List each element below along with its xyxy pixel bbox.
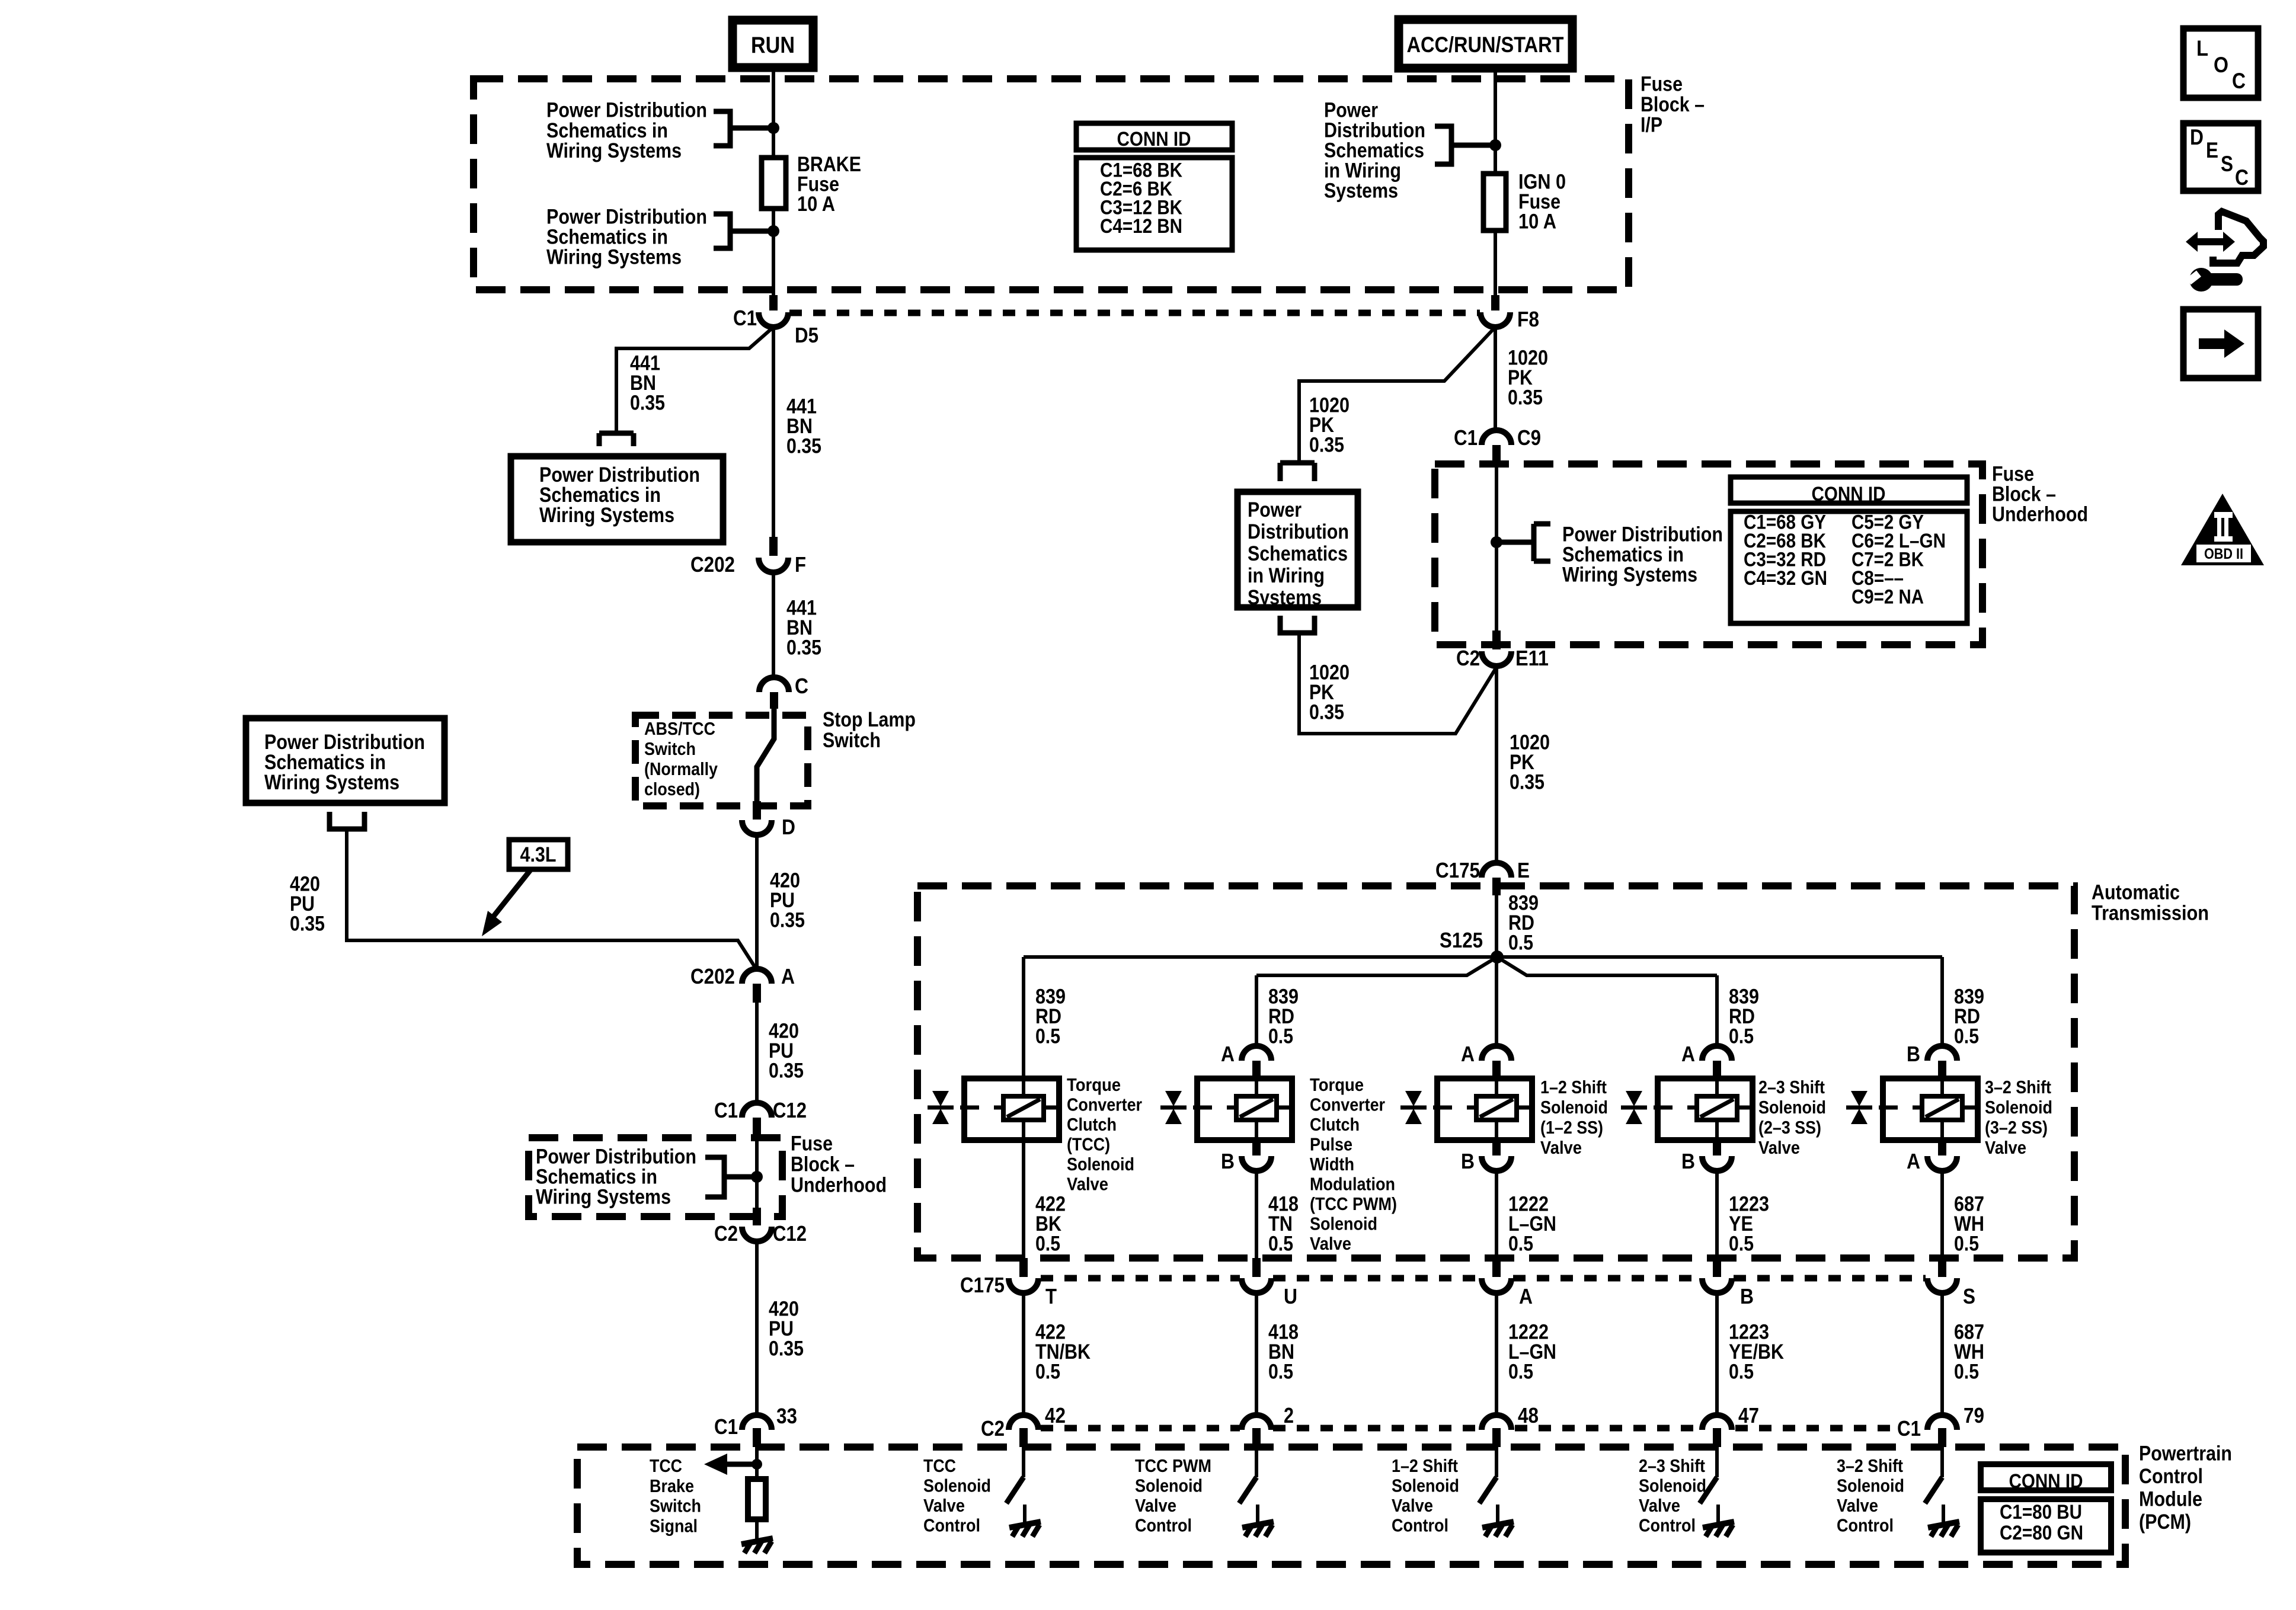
svg-text:Fuse: Fuse	[1641, 73, 1683, 96]
svg-text:Valve: Valve	[1639, 1495, 1680, 1516]
4.3L tag box	[509, 840, 568, 869]
hydraulic dashes col4	[1654, 1106, 1753, 1110]
svg-text:ACC/RUN/START: ACC/RUN/START	[1407, 33, 1564, 57]
svg-text:Block –: Block –	[791, 1153, 855, 1176]
svg-text:TCC: TCC	[650, 1455, 682, 1476]
svg-text:C12: C12	[773, 1098, 807, 1122]
svg-text:0.35: 0.35	[769, 1060, 804, 1083]
connector C1-C12: blade	[753, 1118, 761, 1135]
icon forward arrow	[2183, 309, 2258, 378]
node junction dot	[752, 1459, 762, 1470]
svg-text:Solenoid: Solenoid	[1540, 1097, 1608, 1118]
fuse BRAKE 10A	[762, 158, 786, 209]
svg-text:C2=80 GN: C2=80 GN	[2000, 1522, 2083, 1544]
svg-text:B: B	[1907, 1042, 1920, 1066]
col5 drop wire	[1940, 957, 1944, 1048]
svg-text:O: O	[2214, 53, 2228, 77]
label 1-2 Shift Solenoid (1-2 SS) Valve	[1540, 1077, 1608, 1158]
svg-text:42: 42	[1045, 1403, 1066, 1427]
relay coil col2	[1236, 1096, 1277, 1120]
svg-text:C202: C202	[690, 552, 735, 577]
connector C1-D5: arc	[759, 312, 788, 327]
svg-text:Valve: Valve	[1540, 1137, 1582, 1158]
ACC/RUN/START box	[1399, 20, 1572, 68]
node junction dot	[768, 122, 779, 134]
svg-text:Distribution: Distribution	[1248, 520, 1349, 543]
driver switch and ground col3	[1495, 1447, 1498, 1477]
bracket into reference box	[1280, 463, 1315, 481]
svg-text:C: C	[2235, 165, 2249, 190]
svg-text:F: F	[795, 552, 806, 577]
svg-text:0.35: 0.35	[1309, 701, 1344, 724]
relay coil col5	[1922, 1096, 1962, 1120]
wire label 418 TN 0.5	[1268, 1193, 1299, 1256]
svg-text:Wiring Systems: Wiring Systems	[539, 504, 674, 527]
ground	[741, 1538, 773, 1553]
connector B (col2 bottom): blade	[1252, 1140, 1261, 1156]
svg-text:(2–3 SS): (2–3 SS)	[1758, 1117, 1821, 1138]
wire through solenoid col1	[1022, 1078, 1025, 1140]
fuse IGN 0 10A	[1483, 174, 1506, 231]
reference box Power Distribution Schematics	[1237, 492, 1358, 607]
Fuse Block Underhood dashed box (right)	[1435, 464, 1982, 645]
svg-text:48: 48	[1518, 1403, 1539, 1427]
svg-text:2: 2	[1284, 1403, 1294, 1427]
node junction dot	[1489, 139, 1501, 151]
wire label 422 TN/BK 0.5	[1035, 1321, 1091, 1384]
connector PCM row col5: arc and blade (79)	[1927, 1415, 1957, 1430]
connector C202-A: blade	[753, 984, 761, 1003]
svg-text:Fuse: Fuse	[791, 1132, 833, 1156]
connector C1-C9: blade	[1492, 445, 1501, 464]
label 3-2 Shift Solenoid Valve Control	[1837, 1455, 1904, 1536]
svg-text:Transmission: Transmission	[2092, 902, 2209, 925]
connector C2-C12: arc	[742, 1227, 772, 1241]
wire through underhood block	[1495, 464, 1498, 630]
svg-text:Control: Control	[1639, 1515, 1696, 1536]
Fuse Block I/P dashed box	[474, 79, 1629, 290]
col2 drop wire	[1255, 975, 1258, 1048]
label TCC Brake Switch Signal	[650, 1455, 701, 1537]
bracket to callout	[1496, 524, 1550, 561]
bus wire lower left to col2	[1256, 957, 1497, 975]
connector A (col4 top): blade	[1713, 1061, 1721, 1076]
solenoid box col5	[1883, 1078, 1978, 1140]
svg-text:0.35: 0.35	[786, 636, 821, 660]
svg-text:C1: C1	[1454, 425, 1478, 450]
label Torque Converter Clutch Pulse Width Modulation (TCC PWM) Solenoid Valve	[1310, 1074, 1397, 1254]
connector PCM row col3: arc and blade (48)	[1482, 1415, 1511, 1430]
svg-text:Schematics: Schematics	[1248, 542, 1348, 565]
svg-text:Automatic: Automatic	[2092, 881, 2180, 904]
svg-text:C12: C12	[773, 1221, 807, 1246]
connector C1-33: arc	[742, 1415, 772, 1430]
hydraulic dashes col2	[1193, 1106, 1292, 1110]
4.3L arrow	[494, 869, 531, 916]
svg-text:Solenoid: Solenoid	[1067, 1154, 1134, 1174]
svg-text:E: E	[1517, 858, 1530, 882]
svg-text:E11: E11	[1515, 646, 1549, 670]
svg-text:C4=32 GN: C4=32 GN	[1744, 567, 1827, 590]
icon vehicle with wrench	[2186, 212, 2263, 292]
svg-text:0.5: 0.5	[1035, 1025, 1060, 1048]
connector A (col2 top): blade	[1252, 1061, 1261, 1076]
svg-text:A: A	[1907, 1149, 1920, 1173]
bracket below reference box	[330, 812, 364, 829]
solenoid column 4 valve bowtie	[1621, 1091, 1647, 1124]
connector C202-F: arc	[759, 558, 788, 572]
wire 441 C202 to C	[772, 572, 775, 678]
svg-text:A: A	[1681, 1042, 1695, 1066]
svg-text:C: C	[2232, 69, 2246, 93]
svg-text:Power Distribution: Power Distribution	[546, 99, 707, 122]
svg-text:C1: C1	[1897, 1416, 1921, 1441]
svg-text:Valve: Valve	[1310, 1233, 1351, 1254]
connector B (col3 bottom): blade	[1492, 1140, 1501, 1156]
svg-text:0.35: 0.35	[290, 913, 325, 936]
node junction dot	[1491, 536, 1502, 548]
wire col1 to C175	[1022, 1140, 1025, 1258]
svg-text:Stop Lamp: Stop Lamp	[823, 708, 916, 731]
svg-text:C1=80 BU: C1=80 BU	[2000, 1501, 2082, 1523]
wire RUN feed	[772, 65, 775, 296]
svg-text:Module: Module	[2139, 1488, 2202, 1511]
reference box Power Distribution Schematics (4.3L area)	[246, 718, 445, 803]
svg-text:Valve: Valve	[1837, 1495, 1878, 1516]
label 1-2 Shift Solenoid Valve Control	[1392, 1455, 1459, 1536]
svg-text:0.35: 0.35	[1508, 386, 1543, 409]
col4 drop wire	[1715, 975, 1719, 1048]
solenoid column 2 valve bowtie	[1160, 1091, 1187, 1124]
svg-text:10 A: 10 A	[797, 193, 835, 216]
svg-text:B: B	[1681, 1149, 1695, 1173]
node junction dot	[751, 1171, 763, 1183]
solenoid box col4	[1658, 1078, 1753, 1140]
svg-text:C1: C1	[733, 306, 757, 330]
col3 drop wire	[1495, 957, 1498, 1048]
svg-text:Systems: Systems	[1248, 586, 1322, 609]
connector A (col2 top): arc	[1242, 1046, 1271, 1061]
svg-text:Clutch: Clutch	[1310, 1114, 1360, 1135]
svg-text:A: A	[781, 964, 795, 988]
svg-text:C175: C175	[960, 1273, 1005, 1297]
dotted interconnect row C1/F8	[789, 310, 1480, 316]
wire 1020 E11 to C175	[1495, 666, 1498, 865]
connector B (col4 bottom): blade	[1713, 1140, 1721, 1156]
svg-text:C4=12 BN: C4=12 BN	[1100, 215, 1182, 238]
wire label 687 WH 0.5	[1954, 1321, 1984, 1384]
svg-text:D: D	[782, 815, 795, 839]
svg-text:Converter: Converter	[1067, 1094, 1142, 1115]
wire col3 to C175	[1495, 1171, 1498, 1258]
wire 420 C2-C12 to C1-33	[755, 1241, 759, 1416]
relay coil col1	[1003, 1096, 1044, 1120]
wire E to S125	[1495, 895, 1498, 957]
svg-text:E: E	[2206, 138, 2218, 162]
svg-text:0.5: 0.5	[1729, 1361, 1754, 1384]
wire D5 branch diagonal	[616, 327, 773, 431]
icon OBD II triangle	[2181, 494, 2264, 565]
svg-text:3–2 Shift: 3–2 Shift	[1837, 1455, 1903, 1476]
svg-text:Modulation: Modulation	[1310, 1174, 1395, 1195]
svg-text:A: A	[1519, 1284, 1533, 1308]
svg-text:Valve: Valve	[1067, 1174, 1108, 1195]
solenoid box col2	[1197, 1078, 1292, 1140]
solenoid box col1	[964, 1078, 1059, 1140]
connector C1-33: blade	[753, 1428, 761, 1447]
connector C1-C9: arc	[1482, 430, 1511, 445]
RUN box	[733, 20, 813, 68]
connector F8: blade	[1491, 295, 1499, 311]
svg-text:Pulse: Pulse	[1310, 1134, 1352, 1155]
connector C175-E: blade	[1492, 878, 1501, 895]
connector PCM row col1: arc and blade (42)	[1009, 1415, 1038, 1430]
svg-text:(TCC): (TCC)	[1067, 1134, 1110, 1155]
svg-text:Switch: Switch	[650, 1496, 701, 1516]
svg-text:Solenoid: Solenoid	[1392, 1475, 1459, 1496]
dotted interconnect row PCM pins	[1041, 1425, 1894, 1432]
driver switch and ground col2	[1255, 1447, 1258, 1477]
svg-text:0.35: 0.35	[630, 392, 665, 415]
svg-text:0.35: 0.35	[786, 435, 821, 458]
hydraulic dashes col5	[1879, 1106, 1978, 1110]
connector C2-E11: blade	[1492, 630, 1501, 649]
svg-text:Clutch: Clutch	[1067, 1114, 1117, 1135]
svg-text:L: L	[2196, 36, 2208, 60]
svg-text:Wiring Systems: Wiring Systems	[536, 1186, 671, 1209]
svg-text:OBD II: OBD II	[2204, 546, 2243, 562]
svg-text:Signal: Signal	[650, 1516, 698, 1537]
solenoid column 1 valve bowtie	[928, 1091, 954, 1124]
svg-text:4.3L: 4.3L	[520, 843, 557, 866]
svg-text:S125: S125	[1440, 928, 1483, 952]
relay coil col4	[1697, 1096, 1737, 1120]
connector C175 row col5: blade and arc (S)	[1938, 1258, 1946, 1277]
CONN ID table (PCM)	[1981, 1464, 2111, 1553]
driver switch and ground col1	[1022, 1447, 1025, 1477]
svg-text:(3–2 SS): (3–2 SS)	[1985, 1117, 2048, 1138]
TCC brake switch signal wire	[755, 1447, 759, 1479]
svg-text:Solenoid: Solenoid	[1985, 1097, 2052, 1118]
connector C2-E11: arc	[1482, 651, 1511, 666]
svg-text:Wiring Systems: Wiring Systems	[546, 246, 682, 269]
svg-text:CONN ID: CONN ID	[1117, 128, 1191, 151]
relay coil col3	[1476, 1096, 1517, 1120]
label 3-2 Shift Solenoid (3-2 SS) Valve	[1985, 1077, 2052, 1158]
svg-text:10 A: 10 A	[1518, 210, 1556, 233]
connector B (col5 top): blade	[1938, 1061, 1946, 1076]
svg-text:Wiring Systems: Wiring Systems	[546, 139, 682, 162]
svg-text:Switch: Switch	[644, 738, 696, 759]
wire 1020 F8 to C1-C9	[1494, 327, 1497, 432]
solenoid column 3 valve bowtie	[1400, 1091, 1427, 1124]
wire col5 to C175	[1940, 1171, 1944, 1258]
svg-text:Systems: Systems	[1324, 180, 1398, 203]
svg-text:RUN: RUN	[751, 33, 795, 58]
svg-text:Solenoid: Solenoid	[1135, 1475, 1203, 1496]
bracket to node	[705, 1157, 757, 1197]
svg-text:0.35: 0.35	[769, 1337, 804, 1361]
svg-text:D5: D5	[795, 323, 818, 347]
PCM dashed box	[577, 1447, 2125, 1564]
svg-text:(TCC PWM): (TCC PWM)	[1310, 1193, 1397, 1214]
svg-text:2–3 Shift: 2–3 Shift	[1758, 1077, 1825, 1097]
label TCC Solenoid Valve Control	[923, 1455, 991, 1536]
svg-text:0.5: 0.5	[1729, 1025, 1754, 1048]
icon LOC	[2183, 28, 2258, 98]
svg-text:0.5: 0.5	[1954, 1361, 1979, 1384]
svg-text:S: S	[1963, 1284, 1975, 1308]
svg-text:S: S	[2221, 152, 2233, 176]
svg-text:Brake: Brake	[650, 1475, 694, 1496]
svg-text:Power: Power	[1248, 498, 1302, 521]
svg-text:0.35: 0.35	[1510, 771, 1544, 794]
svg-text:C1: C1	[714, 1414, 738, 1439]
svg-text:CONN ID: CONN ID	[2009, 1470, 2083, 1493]
svg-text:0.5: 0.5	[1035, 1233, 1060, 1256]
switch arm (normally closed)	[757, 709, 774, 801]
svg-text:C9: C9	[1517, 425, 1541, 450]
svg-text:0.5: 0.5	[1268, 1025, 1293, 1048]
svg-text:33: 33	[776, 1404, 797, 1428]
node junction dot	[768, 225, 779, 237]
svg-text:Valve: Valve	[1985, 1137, 2026, 1158]
label 2-3 Shift Solenoid (2-3 SS) Valve	[1758, 1077, 1826, 1158]
wire to E11 diagonal	[1299, 633, 1496, 734]
svg-text:C9=2 NA: C9=2 NA	[1851, 586, 1924, 609]
svg-text:0.5: 0.5	[1035, 1361, 1060, 1384]
connector A (col4 top): arc	[1702, 1046, 1732, 1061]
svg-text:closed): closed)	[644, 779, 700, 799]
svg-text:B: B	[1221, 1149, 1235, 1173]
bus wire lower right to col4	[1497, 957, 1717, 975]
dotted interconnect row C175	[1041, 1275, 1926, 1282]
wire col4 to C175	[1715, 1171, 1719, 1258]
wire to ground	[755, 1519, 759, 1541]
connector C202-F: blade	[769, 537, 778, 556]
svg-text:C175: C175	[1435, 858, 1480, 882]
connector C175 row col1: blade and arc (T)	[1019, 1258, 1028, 1277]
bracket to node	[714, 111, 773, 146]
ABS/TCC switch dashed box	[635, 715, 808, 806]
svg-text:0.5: 0.5	[1954, 1025, 1979, 1048]
connector B (col5 top): arc	[1927, 1046, 1957, 1061]
connector C175-E: arc	[1482, 863, 1511, 878]
svg-text:Wiring Systems: Wiring Systems	[264, 771, 399, 794]
wire label 418 BN 0.5	[1268, 1321, 1299, 1384]
connector C175 row col4: blade and arc (B)	[1713, 1258, 1721, 1277]
svg-text:C2: C2	[714, 1221, 738, 1246]
svg-text:Torque: Torque	[1067, 1074, 1121, 1095]
bracket to node	[714, 214, 773, 248]
svg-text:CONN ID: CONN ID	[1812, 483, 1886, 505]
wire through underhood block	[755, 1135, 759, 1209]
svg-text:2–3 Shift: 2–3 Shift	[1639, 1455, 1705, 1476]
svg-text:47: 47	[1738, 1403, 1759, 1427]
wire 420 C202 to C1-C12	[755, 1003, 759, 1105]
svg-text:Width: Width	[1310, 1154, 1354, 1174]
wire through solenoid col5	[1940, 1078, 1944, 1140]
svg-text:0.35: 0.35	[770, 909, 805, 932]
svg-text:1–2 Shift: 1–2 Shift	[1392, 1455, 1458, 1476]
svg-text:B: B	[1740, 1284, 1754, 1308]
svg-text:3–2 Shift: 3–2 Shift	[1985, 1077, 2051, 1097]
bracket into reference box	[599, 433, 634, 446]
signal arrow	[722, 1462, 757, 1467]
svg-text:0.5: 0.5	[1508, 1233, 1533, 1256]
wire label 422 BK 0.5	[1035, 1193, 1066, 1256]
svg-text:(PCM): (PCM)	[2139, 1510, 2191, 1534]
connector A (col3 top): blade	[1492, 1061, 1501, 1076]
svg-text:(Normally: (Normally	[644, 758, 718, 779]
connector F8: arc	[1480, 312, 1510, 327]
wires C175 row to PCM row	[1024, 1293, 1942, 1416]
svg-text:0.5: 0.5	[1508, 1361, 1533, 1384]
CONN ID table (Fuse Block I/P)	[1076, 123, 1232, 250]
svg-text:Solenoid: Solenoid	[1639, 1475, 1706, 1496]
Fuse Block Underhood dashed box (left)	[529, 1138, 782, 1217]
svg-text:(1–2 SS): (1–2 SS)	[1540, 1117, 1603, 1138]
driver switch and ground col5	[1940, 1447, 1944, 1477]
connector PCM row col4: arc and blade (47)	[1702, 1415, 1732, 1430]
svg-text:Valve: Valve	[923, 1495, 965, 1516]
svg-text:A: A	[1221, 1042, 1235, 1066]
svg-text:Control: Control	[1837, 1515, 1894, 1536]
svg-text:C2: C2	[981, 1416, 1005, 1441]
svg-text:0.5: 0.5	[1268, 1361, 1293, 1384]
svg-text:Control: Control	[1135, 1515, 1192, 1536]
wire 420 D to C202-A	[755, 835, 759, 970]
solenoid column 5 valve bowtie	[1846, 1091, 1872, 1124]
svg-text:TCC: TCC	[923, 1455, 956, 1476]
svg-text:Underhood: Underhood	[791, 1174, 887, 1197]
CONN ID table (Fuse Block Underhood)	[1731, 477, 1967, 623]
svg-text:T: T	[1045, 1284, 1057, 1308]
svg-text:0.5: 0.5	[1729, 1233, 1754, 1256]
svg-text:1–2 Shift: 1–2 Shift	[1540, 1077, 1607, 1097]
connector B (col4 bottom): arc	[1702, 1156, 1732, 1171]
connector B (col3 bottom): arc	[1482, 1156, 1511, 1171]
connector C175 row col2: blade and arc (U)	[1252, 1258, 1261, 1277]
connector PCM row col2: arc and blade (2)	[1242, 1415, 1271, 1430]
svg-text:0.5: 0.5	[1954, 1233, 1979, 1256]
svg-text:in Wiring: in Wiring	[1248, 564, 1325, 587]
wire through solenoid col2	[1255, 1078, 1258, 1140]
wire label 687 WH 0.5	[1954, 1193, 1984, 1256]
connector C175 row col3: blade and arc (A)	[1492, 1258, 1501, 1277]
connector C: arc	[759, 677, 789, 692]
svg-text:U: U	[1284, 1284, 1297, 1308]
wire through solenoid col4	[1715, 1078, 1719, 1140]
svg-text:A: A	[1461, 1042, 1475, 1066]
wire through solenoid col3	[1495, 1078, 1498, 1140]
connector A (col5 bottom): arc	[1927, 1156, 1957, 1171]
wire 420 branch	[347, 829, 757, 970]
solenoid box col3	[1437, 1078, 1532, 1140]
hydraulic dashes col1	[960, 1106, 1059, 1110]
wire col2 to C175	[1255, 1171, 1258, 1258]
svg-text:ABS/TCC: ABS/TCC	[644, 718, 715, 739]
bus wire upper row	[1024, 955, 1942, 959]
wire label 1222 L-GN 0.5	[1508, 1321, 1556, 1384]
connector C1-C12: arc	[742, 1103, 772, 1118]
driver switch and ground col4	[1715, 1447, 1719, 1477]
connector C1-D5: blade	[769, 295, 778, 311]
svg-text:79: 79	[1964, 1403, 1984, 1427]
wire 441 D5 to C202	[772, 327, 775, 537]
wire label 1223 YE/BK 0.5	[1729, 1321, 1784, 1384]
svg-text:C2: C2	[1456, 646, 1480, 670]
